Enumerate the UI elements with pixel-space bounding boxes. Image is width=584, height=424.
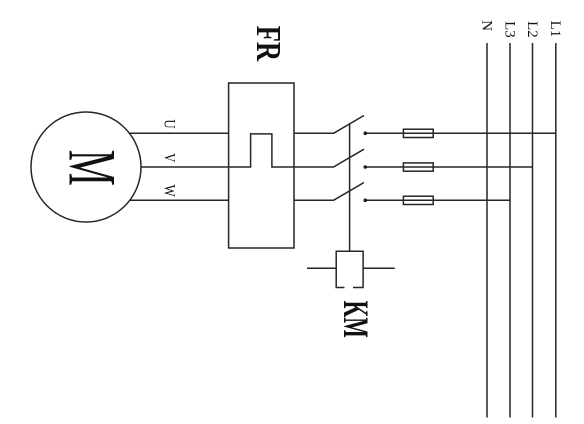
- contactor KM coil: [336, 251, 363, 287]
- KM coil right lead: [363, 267, 395, 269]
- fuse FU1: [403, 129, 433, 137]
- contactor KM main contact blade 3: [334, 183, 365, 201]
- contactor KM main contact blade 1: [334, 116, 365, 134]
- contact node 2: [364, 165, 368, 169]
- power line L1: [555, 43, 557, 418]
- wire U motor to FR: [129, 132, 228, 134]
- svg-text:M: M: [54, 150, 129, 186]
- thermal relay FR box: [229, 83, 294, 248]
- power line N: [486, 43, 488, 418]
- contact node 3: [364, 199, 368, 203]
- svg-text:L1: L1: [547, 21, 563, 38]
- svg-text:FR: FR: [249, 26, 288, 62]
- wire V motor through FR heater: [141, 134, 334, 167]
- wire W motor to FR: [130, 199, 229, 201]
- svg-text:U: U: [160, 119, 178, 129]
- wire contact 2 to L2: [367, 166, 533, 168]
- fuse FU3: [403, 196, 433, 204]
- wire contact 3 to L3: [367, 199, 511, 201]
- power line L3: [509, 43, 511, 418]
- svg-text:N: N: [478, 20, 494, 31]
- svg-text:L3: L3: [501, 21, 517, 38]
- contact node 1: [364, 132, 368, 136]
- contactor KM main contact blade 2: [334, 149, 365, 167]
- fuse FU2: [403, 163, 433, 171]
- svg-text:W: W: [160, 185, 178, 197]
- KM coil left lead: [307, 267, 336, 269]
- power line L2: [532, 43, 534, 418]
- svg-text:L2: L2: [524, 21, 540, 38]
- wire W FR to contact: [294, 199, 334, 201]
- svg-text:KM: KM: [335, 301, 374, 338]
- contactor linkage bar: [349, 123, 351, 251]
- motor M circle: [31, 112, 141, 222]
- wire U FR to contact: [294, 132, 334, 134]
- svg-text:V: V: [160, 153, 178, 163]
- wire contact 1 to L1: [367, 132, 556, 134]
